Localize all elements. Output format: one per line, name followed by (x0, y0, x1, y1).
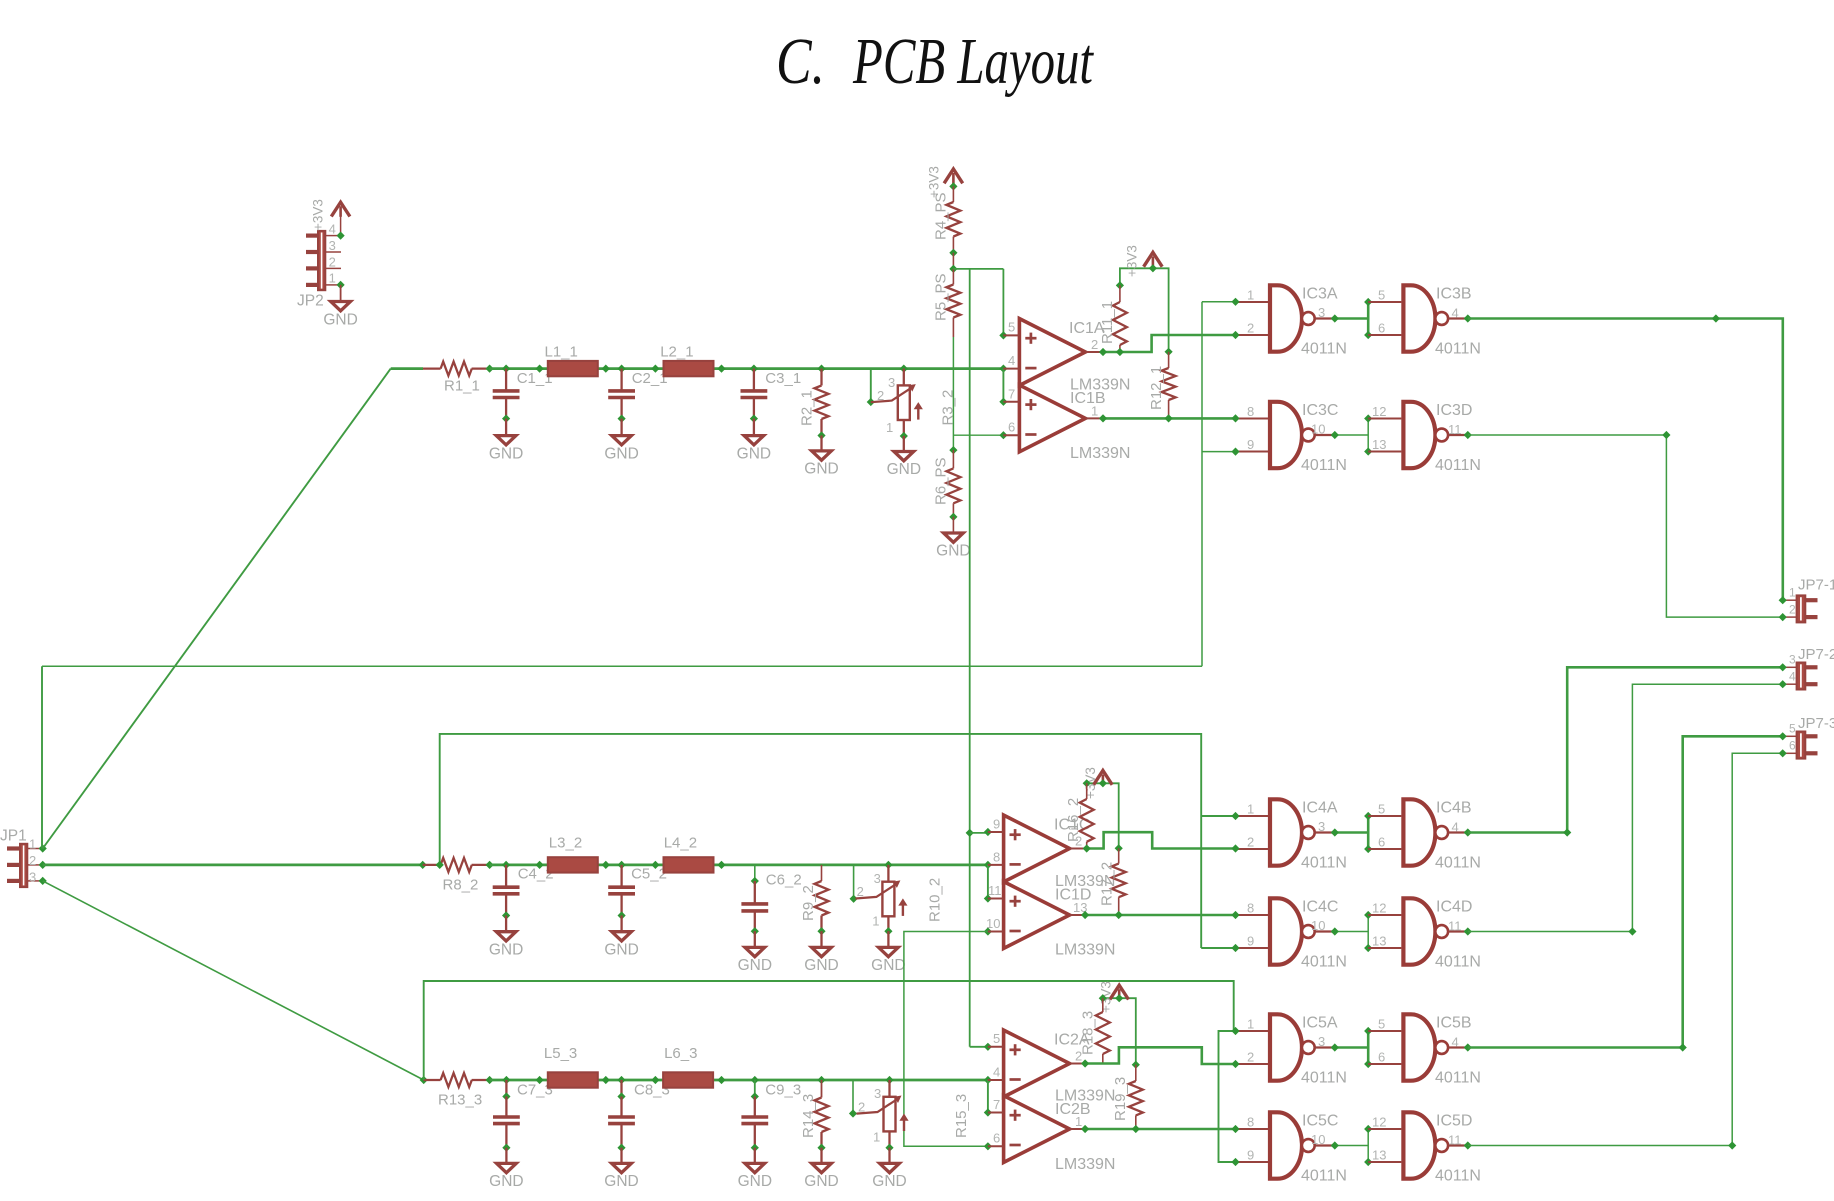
junction IC2A output (1081, 1059, 1089, 1067)
svg-text:4011N: 4011N (1435, 953, 1481, 970)
junction (502, 1144, 510, 1152)
wire IC1C pin8 to IC1D pin11 (987, 865, 989, 899)
wire IC1D pin 10 reference link (904, 932, 988, 1147)
svg-text:R6_PS: R6_PS (933, 457, 950, 505)
connector JP2 (306, 231, 341, 290)
wire IC1D output to IC4C pin 8 (1085, 914, 1235, 917)
svg-text:L2_1: L2_1 (660, 343, 693, 360)
wire IC3A output to IC3B inputs (1335, 317, 1368, 320)
junction JP7-2 pin 4 (1779, 680, 1787, 688)
pin stubs IC2A/IC2B (988, 1047, 1085, 1147)
svg-text:2: 2 (1247, 1050, 1254, 1065)
svg-text:IC4C: IC4C (1302, 898, 1338, 915)
junction JP7-2 pin 3 (1779, 663, 1787, 671)
svg-text:GND: GND (804, 957, 838, 974)
junction IC3D output (1464, 431, 1472, 439)
svg-text:2: 2 (858, 1099, 865, 1114)
IC1A plus input mark (1025, 333, 1036, 344)
svg-text:3: 3 (1318, 819, 1325, 834)
pin stubs IC5A (1236, 1031, 1269, 1064)
svg-text:5: 5 (1378, 1017, 1385, 1032)
resistor R12_1 (1162, 368, 1176, 400)
wire (952, 503, 954, 517)
junction IC1A pin 4 (999, 365, 1007, 373)
junction IC5D output corner (1728, 1141, 1736, 1149)
capacitor C6_2 (741, 904, 768, 911)
wire (1168, 352, 1170, 368)
svg-text:4011N: 4011N (1435, 1167, 1481, 1184)
ground (612, 1163, 632, 1172)
svg-text:L4_2: L4_2 (664, 835, 697, 852)
IC2B minus input mark (1010, 1144, 1021, 1147)
svg-text:R12_1: R12_1 (1148, 366, 1165, 410)
junction IC1B output (1099, 414, 1107, 422)
junction (750, 415, 758, 423)
junction IC3B pin a (1364, 298, 1372, 306)
NAND gate IC5B (4011N) (1403, 1014, 1435, 1080)
inductor L6_3 (663, 1072, 713, 1087)
wire (1118, 897, 1120, 915)
svg-text:9: 9 (1247, 934, 1254, 949)
junction IC4D output (1464, 927, 1472, 935)
svg-text:R16_2: R16_2 (1065, 798, 1082, 842)
wire (754, 931, 756, 947)
ground (880, 1163, 900, 1172)
wire to IC3A pin 1 (1202, 301, 1236, 303)
ground (496, 932, 516, 941)
svg-text:JP7-2: JP7-2 (1798, 646, 1834, 663)
svg-text:IC5C: IC5C (1302, 1112, 1338, 1129)
svg-text:6: 6 (1378, 321, 1385, 336)
svg-text:R5_PS: R5_PS (933, 273, 950, 321)
svg-text:3: 3 (1789, 653, 1796, 667)
connector JP7-1 (1797, 595, 1806, 622)
svg-text:GND: GND (604, 445, 638, 462)
pin stubs IC5B (1368, 1031, 1401, 1064)
junction L1_1 right (602, 365, 610, 373)
svg-text:7: 7 (1008, 386, 1015, 401)
junction L4_2 right (717, 861, 725, 869)
+3V3 power arrow row 2 (1094, 771, 1113, 785)
junction (618, 911, 626, 919)
IC2B plus input mark (1010, 1110, 1021, 1121)
wire (753, 419, 755, 436)
svg-text:GND: GND (738, 1173, 772, 1190)
junction IC3D pin a (1364, 414, 1372, 422)
resistor R14_3 (815, 1098, 829, 1133)
svg-text:4: 4 (329, 222, 336, 237)
connector JP7-3 (1797, 732, 1806, 759)
wire (888, 1148, 890, 1164)
wire (952, 253, 954, 269)
IC1B plus input mark (1025, 399, 1036, 410)
NAND gate IC3A (4011N) (1270, 285, 1302, 351)
junction C5_2 (618, 861, 626, 869)
junction IC3B pin b (1364, 331, 1372, 339)
junction node VREF_HI (949, 265, 957, 273)
junction R18_3 top (1099, 994, 1107, 1002)
junction C7_3 top (502, 1092, 510, 1100)
wire (620, 398, 622, 419)
pin stubs IC5C (1236, 1129, 1269, 1162)
svg-text:13: 13 (1372, 437, 1386, 452)
wire IC5C output to IC5D inputs (1335, 1145, 1368, 1147)
wire (1367, 1129, 1369, 1162)
wire row3 feed up (424, 981, 1234, 1080)
junction L6_3 right (717, 1076, 725, 1084)
junction IC5B pin b (1364, 1060, 1372, 1068)
pin stubs IC1C/IC1D (988, 832, 1087, 932)
svg-text:6: 6 (1378, 835, 1385, 850)
svg-text:R9_2: R9_2 (800, 885, 817, 921)
junction JP7-3 pin 5 (1779, 732, 1787, 740)
junction IC1C pin 9 (984, 828, 992, 836)
wire (952, 269, 954, 285)
svg-text:IC1D: IC1D (1055, 887, 1091, 904)
junction (486, 1076, 494, 1084)
junction R2_1 (817, 365, 825, 373)
svg-text:1: 1 (29, 837, 36, 852)
+3V3 power arrow row 3 (1110, 985, 1129, 999)
junction IC4B output corner (1563, 828, 1571, 836)
junction IC4A pin 2 (1231, 844, 1239, 852)
svg-text:1: 1 (1789, 585, 1796, 599)
wire (423, 368, 441, 370)
wire (472, 368, 490, 370)
wire IC3D output to JP7-1 pin 2 (1468, 435, 1783, 617)
wire (424, 1079, 441, 1081)
junction +3V3 arrow row2 (1099, 779, 1107, 787)
wire (753, 369, 755, 391)
svg-text:GND: GND (738, 957, 772, 974)
junction (751, 927, 759, 935)
wire row1 branch to trimmer R3_2 (870, 369, 872, 402)
junction L2_1 left (651, 365, 659, 373)
svg-text:2: 2 (877, 388, 884, 403)
svg-text:1: 1 (873, 1129, 880, 1144)
svg-text:6: 6 (993, 1131, 1000, 1146)
junction (486, 365, 494, 373)
trimmer R3_2 (898, 385, 910, 420)
output stub IC3B (1448, 317, 1468, 319)
wire (620, 1148, 622, 1164)
svg-text:3: 3 (1318, 1034, 1325, 1049)
wire (620, 369, 622, 391)
svg-text:R3_2: R3_2 (940, 390, 957, 426)
svg-text:2: 2 (1789, 602, 1796, 616)
svg-text:GND: GND (604, 1173, 638, 1190)
svg-text:11: 11 (1448, 1133, 1462, 1148)
wire +3V3 row1 (1120, 268, 1169, 352)
svg-text:12: 12 (1372, 901, 1386, 916)
junction C7_3 (502, 1076, 510, 1084)
wire IC3C output to IC3D inputs (1335, 434, 1368, 436)
junction IC5D pin a (1364, 1125, 1372, 1133)
junction on IC3B output run (1712, 314, 1720, 322)
svg-text:4011N: 4011N (1301, 1167, 1347, 1184)
junction (817, 431, 825, 439)
svg-text:2: 2 (29, 853, 36, 868)
junction C9_3 (751, 1076, 759, 1084)
svg-text:R18_3: R18_3 (1080, 1011, 1097, 1055)
wire IC5D output to JP7-3 pin 6 (1468, 753, 1783, 1145)
junction IC3B output (1464, 314, 1472, 322)
wire row3 main (490, 1079, 988, 1082)
svg-text:8: 8 (1247, 1115, 1254, 1130)
wire (505, 369, 507, 391)
junction IC1A output (1099, 348, 1107, 356)
svg-text:R17_2: R17_2 (1099, 862, 1116, 906)
comparator IC1A (LM339N) (1019, 319, 1085, 386)
svg-text:IC4D: IC4D (1436, 898, 1472, 915)
wire (1119, 285, 1121, 302)
junction JP1 pin 3 (39, 877, 47, 885)
wire to IC4A pin 1 (1201, 815, 1235, 817)
ground (612, 436, 632, 445)
wire IC1C output with jog to IC4A pin 2 (1087, 832, 1236, 848)
svg-text:GND: GND (872, 1173, 906, 1190)
wire VREF_HI down to IC1A pin 5 (1002, 269, 1004, 336)
junction IC3D output corner (1662, 431, 1670, 439)
wire JP1 pin3 diagonal to row 3 filter (43, 881, 424, 1080)
NAND gate IC4D (4011N) (1403, 898, 1435, 964)
wire +3V3 row2 (1087, 783, 1119, 848)
pin stubs IC4D (1368, 915, 1401, 948)
svg-text:IC5A: IC5A (1302, 1014, 1338, 1031)
junction IC3C pin 8 (1231, 414, 1239, 422)
junction IC4C output (1331, 927, 1339, 935)
svg-text:4011N: 4011N (1301, 854, 1347, 871)
wire (1135, 1115, 1137, 1129)
wire IC1B output to IC3C pin 8 (1103, 417, 1236, 420)
junction R15_3 pin 3 (885, 1076, 893, 1084)
wire IC1A pin4 to IC1B pin7 (1002, 369, 1004, 402)
output stub IC3D (1448, 434, 1468, 436)
junction C1_1 (502, 365, 510, 373)
svg-text:4011N: 4011N (1301, 457, 1347, 474)
wire VREF_HI rail vertical (969, 269, 971, 1047)
svg-text:4: 4 (1452, 820, 1459, 835)
ground (812, 451, 832, 460)
capacitor C3_1 (741, 391, 768, 398)
junction C9_3 top (751, 1092, 759, 1100)
junction JP1 pin 2 (39, 861, 47, 869)
wire (1086, 783, 1088, 799)
wire (1086, 842, 1088, 849)
wire R9_2 tap (821, 865, 823, 881)
wire (820, 931, 822, 947)
+3V3 power arrow at JP2 (331, 202, 350, 216)
NAND gate IC3B (4011N) (1403, 285, 1435, 351)
pin stubs IC3B (1368, 302, 1401, 335)
junction IC3C output (1331, 431, 1339, 439)
svg-text:11: 11 (988, 883, 1002, 898)
NAND gate IC4B (4011N) (1403, 799, 1435, 865)
svg-text:C9_3: C9_3 (765, 1081, 801, 1098)
wire row1 main (490, 367, 1004, 370)
junction JP7-3 pin 6 (1779, 749, 1787, 757)
wire IC2B output to IC5C pin 8 (1085, 1128, 1235, 1131)
svg-text:12: 12 (1372, 1115, 1386, 1130)
svg-text:GND: GND (489, 445, 523, 462)
junction IC4B pin a (1364, 812, 1372, 820)
wire VREF_HI to IC1C pin 9 (970, 832, 988, 834)
svg-text:L5_3: L5_3 (544, 1045, 577, 1062)
wire (1102, 998, 1104, 1012)
connector JP7-2 (1797, 663, 1806, 690)
resistor R18_3 (1096, 1012, 1110, 1054)
ground (812, 947, 832, 956)
svg-text:+3V3: +3V3 (311, 199, 326, 231)
junction R15_3 pin 2 (849, 1109, 857, 1117)
svg-text:13: 13 (1372, 1148, 1386, 1163)
junction (502, 415, 510, 423)
junction C6_2 top (751, 877, 759, 885)
inductor L3_2 (548, 857, 598, 872)
pin stubs IC4B (1368, 816, 1401, 849)
svg-text:LM339N: LM339N (1055, 942, 1115, 959)
+3V3 power arrow row 1 (1144, 252, 1163, 266)
wire (952, 517, 954, 533)
output stub IC3C (1315, 434, 1335, 436)
svg-text:3: 3 (329, 238, 336, 253)
svg-text:13: 13 (1372, 934, 1386, 949)
inductor L4_2 (664, 857, 714, 872)
wire IC3B output to JP7-1 pin 1 (1468, 319, 1783, 601)
svg-text:9: 9 (1247, 1148, 1254, 1163)
svg-text:3: 3 (874, 1086, 881, 1101)
junction R5/R6 VREF_LO (949, 446, 957, 454)
junction IC5D output (1464, 1141, 1472, 1149)
junction IC5D pin b (1364, 1158, 1372, 1166)
wire row2 feed up (440, 734, 1201, 948)
ground (894, 452, 914, 461)
svg-text:R14_3: R14_3 (800, 1094, 817, 1138)
NAND gate IC5C (4011N) (1270, 1112, 1302, 1178)
junction IC1D output (1081, 911, 1089, 919)
junction IC5C output (1331, 1141, 1339, 1149)
svg-text:1: 1 (1247, 1017, 1254, 1032)
junction L6_3 left (651, 1076, 659, 1084)
wire (952, 450, 954, 468)
junction L3_2 right (602, 861, 610, 869)
output stub IC3A (1315, 317, 1335, 319)
svg-text:12: 12 (1372, 404, 1386, 419)
wire (620, 1097, 622, 1118)
svg-text:4011N: 4011N (1435, 457, 1481, 474)
wire VREF_LO spur to IC1B pin 6 (953, 434, 1003, 436)
junction L4_2 left (651, 861, 659, 869)
junction IC5C pin 8 (1231, 1125, 1239, 1133)
svg-text:3: 3 (1318, 305, 1325, 320)
ground (497, 1163, 517, 1172)
resistor R5_PS (946, 285, 960, 318)
svg-text:R10_2: R10_2 (927, 878, 944, 922)
svg-text:GND: GND (489, 941, 523, 958)
svg-text:4011N: 4011N (1301, 953, 1347, 970)
IC2A plus input mark (1010, 1044, 1021, 1055)
wire (472, 864, 490, 866)
pin stubs IC3A (1236, 302, 1269, 335)
inductor L2_1 (664, 361, 714, 376)
svg-text:IC1B: IC1B (1070, 390, 1106, 407)
svg-text:R4_PS: R4_PS (933, 192, 950, 240)
IC1B minus input mark (1025, 433, 1036, 436)
wire IC4B output to JP7-2 pin 3 (1468, 667, 1783, 832)
svg-text:1: 1 (872, 914, 879, 929)
junction IC3A output (1331, 314, 1339, 322)
comparator IC1C (LM339N) (1004, 815, 1070, 882)
junction R17_2 top (1115, 844, 1123, 852)
output stub IC4D (1448, 930, 1468, 932)
junction IC3C pin 9 (1231, 448, 1239, 456)
wire (754, 1080, 756, 1097)
wire (505, 1124, 507, 1148)
svg-text:9: 9 (993, 816, 1000, 831)
junction +3V3 arrow row3 (1115, 994, 1123, 1002)
svg-text:IC3D: IC3D (1436, 402, 1472, 419)
capacitor C5_2 (608, 887, 635, 894)
capacitor C9_3 (741, 1117, 768, 1124)
ground (331, 302, 351, 311)
svg-text:4011N: 4011N (1301, 1069, 1347, 1086)
pin stubs IC5D (1368, 1129, 1401, 1162)
svg-text:GND: GND (804, 461, 838, 478)
IC1D minus input mark (1010, 930, 1021, 933)
pin stubs IC1A (1003, 335, 1103, 435)
wire IC2A pin4 to IC2B pin7 (987, 1080, 989, 1113)
svg-text:6: 6 (1789, 738, 1796, 752)
wire (1168, 400, 1170, 418)
resistor R16_2 (1080, 799, 1094, 842)
junction R3_2 pin 2 (867, 398, 875, 406)
svg-text:5: 5 (1378, 802, 1385, 817)
NAND gate IC3C (4011N) (1270, 402, 1302, 468)
svg-text:3: 3 (874, 871, 881, 886)
junction IC5B pin a (1364, 1027, 1372, 1035)
wire (952, 237, 954, 253)
output stub IC5B (1448, 1046, 1468, 1048)
junction R10_2 pin 1 (884, 927, 892, 935)
svg-text:3: 3 (29, 869, 36, 884)
wire (952, 186, 954, 202)
wire JP1 pin1 vertical up (41, 666, 43, 848)
junction IC4B output (1464, 828, 1472, 836)
resistor R19_3 (1129, 1081, 1143, 1115)
junction IC5A pin 1 (1231, 1027, 1239, 1035)
junction L5_3 right (602, 1076, 610, 1084)
resistor R8_2 (441, 858, 472, 872)
junction JP7-1 pin 1 (1779, 596, 1787, 604)
junction (618, 415, 626, 423)
wire (620, 419, 622, 436)
wire (820, 1132, 822, 1148)
junction +3V3 / R4_PS (949, 182, 957, 190)
NAND gate IC3D (4011N) (1403, 402, 1435, 468)
ground (744, 436, 764, 445)
svg-text:C.: C. (776, 25, 825, 98)
junction (817, 927, 825, 935)
junction R17_2 bottom (1115, 911, 1123, 919)
wire net row1 input vertical x=1202 (1201, 302, 1203, 667)
wire JP1 pin2 to R8_2 (43, 864, 423, 867)
junction IC3D pin b (1364, 447, 1372, 455)
svg-text:JP7-1: JP7-1 (1798, 577, 1834, 594)
wire IC5A output to IC5B inputs (1335, 1046, 1368, 1049)
output stub IC5D (1448, 1144, 1468, 1146)
wire C6_2 tap (754, 865, 756, 881)
junction JP1 pin 1 (39, 844, 47, 852)
